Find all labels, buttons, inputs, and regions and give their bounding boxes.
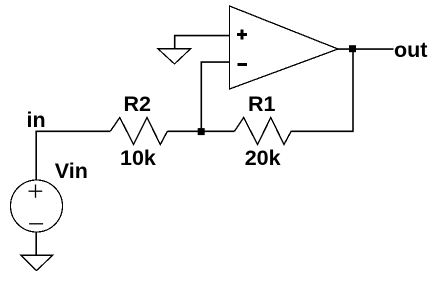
svg-text:20k: 20k	[245, 146, 281, 170]
wire R2 to R1	[168, 130, 235, 132]
voltage source Vin	[11, 180, 63, 232]
wire source to ground	[35, 232, 37, 255]
node junction out	[349, 45, 356, 52]
resistor R2	[111, 118, 168, 145]
svg-text:in: in	[27, 108, 46, 132]
wire R1 to output branch	[291, 130, 353, 132]
wire in node to source	[35, 131, 37, 180]
op-amp U1	[230, 6, 339, 89]
ground at source	[21, 255, 53, 270]
svg-text:R2: R2	[124, 92, 152, 116]
svg-text:Vin: Vin	[55, 159, 88, 183]
node junction A	[198, 128, 205, 135]
svg-text:R1: R1	[248, 92, 276, 116]
svg-text:10k: 10k	[120, 146, 156, 170]
wire non-inverting input	[174, 35, 230, 37]
wire in node to R2	[35, 130, 110, 132]
resistor R1	[235, 118, 292, 145]
wire feedback vertical	[352, 49, 354, 131]
ground at op-amp input	[158, 36, 191, 64]
wire inverting input	[201, 62, 229, 131]
svg-text:out: out	[394, 38, 427, 62]
wire output	[338, 48, 394, 50]
